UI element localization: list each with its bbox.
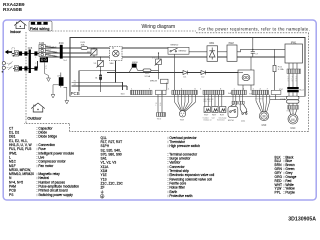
svg-text:PPL: PPL [275, 191, 281, 195]
svg-text:ZF: ZF [101, 186, 105, 190]
varistor V1 [155, 53, 162, 73]
svg-text:thermistor: thermistor [217, 119, 225, 122]
wires into M1C [289, 109, 297, 115]
svg-text:Y1S: Y1S [157, 119, 162, 121]
wire MRM to DB1 [189, 51, 207, 53]
svg-text:: Switching power supply: : Switching power supply [37, 193, 74, 197]
outdoor-side terminal 2 [14, 66, 18, 71]
svg-text:For the power requirements, re: For the power requirements, refer to the… [199, 26, 311, 31]
varistor V3 [97, 57, 104, 92]
svg-text:E1: E1 [74, 80, 76, 82]
outdoor house icon [31, 103, 45, 112]
earth arrow 2 [51, 85, 59, 98]
legend column 3 colour codes [275, 155, 283, 194]
connector block S90 [172, 90, 198, 94]
svg-text:PCB: PCB [71, 91, 80, 96]
svg-text:: Protective earth: : Protective earth [168, 194, 193, 198]
magnetic relay contact box MRM10/MRM20 [168, 47, 189, 54]
svg-text:M: M [263, 115, 266, 119]
svg-text:M1F: M1F [262, 124, 267, 127]
svg-text:1: 1 [35, 57, 36, 59]
diode D2 [201, 71, 206, 75]
ferrite core Z2C [59, 77, 64, 86]
svg-text:M1C: M1C [290, 127, 295, 130]
svg-text:E2: E2 [74, 84, 76, 86]
svg-text:MRM10, MRM20: MRM10, MRM20 [9, 172, 34, 176]
connector X11A (oval pair) [287, 96, 300, 103]
relay MRCW box with coil [238, 70, 254, 85]
PCB box [70, 38, 305, 97]
wires to compressor connector [289, 103, 297, 105]
svg-text:Outdoor air: Outdoor air [203, 119, 212, 122]
svg-text:MRCW: MRCW [150, 80, 158, 82]
empty connector [271, 90, 281, 94]
field wiring squares row1 [19, 51, 22, 55]
high pressure switch S1PH [228, 104, 238, 117]
svg-text:M: M [291, 118, 294, 122]
compressor motor M1C [288, 114, 298, 124]
svg-text:: Fan motor: : Fan motor [37, 164, 55, 168]
capacitor C7 [251, 38, 255, 58]
fan motor M1F wires [256, 95, 270, 113]
svg-text:MRM20: MRM20 [179, 51, 187, 53]
svg-text:R2T: R2T [212, 114, 217, 116]
svg-text:3.15A: 3.15A [144, 75, 150, 78]
svg-text:Y1E: Y1E [180, 120, 185, 122]
earth symbol [101, 190, 104, 193]
connector under IPM1 [287, 69, 301, 74]
svg-text:30A: 30A [81, 44, 85, 47]
svg-text:2: 2 [35, 63, 36, 65]
svg-text:DB1: DB1 [210, 42, 215, 45]
svg-text:: Diode bridge: : Diode bridge [37, 135, 58, 139]
wires X1M to ferrite [45, 47, 60, 57]
intelligent power module IPM1 [285, 44, 303, 63]
svg-text:Field wiring: Field wiring [30, 27, 50, 31]
svg-text:X11A: X11A [280, 98, 286, 101]
fuse FU2 [273, 49, 276, 90]
sub connectors under S80 [232, 101, 237, 104]
outdoor unit dashed boundary [24, 31, 309, 131]
thermistor R3T [220, 107, 226, 113]
svg-text:RXA42B9: RXA42B9 [3, 2, 25, 8]
thermistor descriptions [203, 117, 227, 122]
svg-text:3: 3 [35, 66, 36, 68]
outdoor-side terminal 1 [14, 51, 18, 56]
svg-text:RXA50B: RXA50B [3, 7, 22, 13]
MR30 relay [132, 64, 137, 68]
wire y72.5 [107, 72, 238, 74]
svg-text:S1PH: S1PH [228, 120, 234, 122]
wire y70.7 [79, 70, 116, 72]
earth arrow 3 [64, 87, 69, 104]
field wiring vertical bar [29, 50, 31, 74]
indoor terminal circles 2,3 [2, 62, 5, 65]
svg-text:Z3C: Z3C [59, 41, 64, 45]
indoor wire row1 [12, 53, 39, 55]
Y1E wires [175, 95, 196, 112]
connector block S70 [252, 90, 269, 94]
compressor connector [288, 106, 299, 110]
verticals into MRCW [238, 57, 251, 91]
wire L y48 [46, 47, 168, 49]
micro wire labels left [35, 57, 36, 68]
PCB label [70, 91, 81, 96]
fuse FU3 [81, 47, 88, 50]
wire PAM right [237, 49, 285, 51]
connector small S40 [156, 90, 162, 94]
svg-text:R3T: R3T [220, 114, 225, 116]
svg-text:RED: RED [53, 55, 58, 57]
X1M earth terminal (black) [40, 57, 48, 62]
svg-text:MRM10: MRM10 [171, 44, 179, 46]
Z3C ferrite core [60, 45, 63, 59]
svg-text:L: L [156, 105, 157, 107]
wire y57 [46, 56, 285, 58]
diode D1 [183, 71, 188, 75]
wire y70.3 [138, 69, 159, 71]
wires under S80 [233, 95, 243, 102]
outer frame [3, 20, 316, 200]
wires with colour labels [289, 74, 297, 88]
field wiring squares row2 [19, 66, 22, 70]
connector block S80 [232, 90, 247, 94]
svg-text:: Purple: : Purple [284, 191, 296, 195]
wires under S40 [158, 95, 162, 113]
wire y82.2 [72, 81, 123, 83]
svg-text:Wiring diagram: Wiring diagram [142, 24, 176, 30]
svg-text:Indoor: Indoor [10, 29, 22, 34]
svg-text:R E L H L E: R E L H L E [203, 101, 213, 103]
svg-text:Z1C: Z1C [279, 89, 284, 91]
protective earth symbol [100, 194, 104, 198]
thermistor R2T [212, 107, 218, 113]
legend column 1 descriptions [37, 126, 80, 196]
ferrite cores Z1C (black bars) [287, 87, 298, 89]
thermistor wires + colour marks [205, 95, 222, 107]
X1M terminal strip [39, 45, 45, 57]
wire y86 [72, 85, 127, 87]
junction dots [93, 47, 275, 82]
surge arrestor SA1 [110, 47, 123, 61]
verticals to connector S20 [159, 73, 167, 91]
wire MRM coil to S90 [174, 54, 176, 90]
wire N y53 [46, 52, 91, 54]
svg-text:3D130905A: 3D130905A [288, 217, 316, 223]
wire DB1 to PAM [218, 51, 228, 53]
legend column 2 keys [101, 136, 124, 190]
varistor V2 [90, 48, 97, 57]
wire into X11A region [270, 95, 286, 100]
wires to X11A [289, 92, 297, 96]
earth wire with arrow 1 [45, 62, 51, 81]
legend column 2 descriptions [168, 136, 215, 198]
electronic expansion valve coil Y1E [179, 111, 185, 117]
arrow to indoor unit [5, 50, 12, 54]
svg-text:: High pressure switch: : High pressure switch [168, 144, 201, 148]
thermistor R1T [204, 107, 210, 113]
indoor wire row2 [13, 68, 38, 70]
fuse FU1 [143, 69, 151, 72]
indoor house icon [14, 21, 26, 29]
legend column 1 keys [9, 126, 34, 196]
svg-text:R1T: R1T [204, 114, 209, 116]
connector block S20 [131, 90, 153, 94]
fuse/sensor capsule on V3 branch [99, 74, 102, 80]
connector block thermistors [203, 90, 224, 94]
svg-text:G O R B W: G O R B W [255, 98, 264, 100]
fan motor M1F [259, 111, 268, 120]
field wiring legend box [29, 21, 52, 31]
svg-text:N=5: N=5 [28, 47, 33, 50]
overload protector Q1L [240, 104, 247, 114]
svg-text:BLU: BLU [53, 46, 57, 48]
svg-text:N=5: N=5 [63, 60, 67, 62]
svg-text:Outdoor: Outdoor [27, 115, 42, 120]
IPM1 output wires U V W [289, 63, 297, 69]
svg-text:3.15A: 3.15A [278, 68, 284, 71]
3-cell connector under S40 [157, 113, 166, 117]
